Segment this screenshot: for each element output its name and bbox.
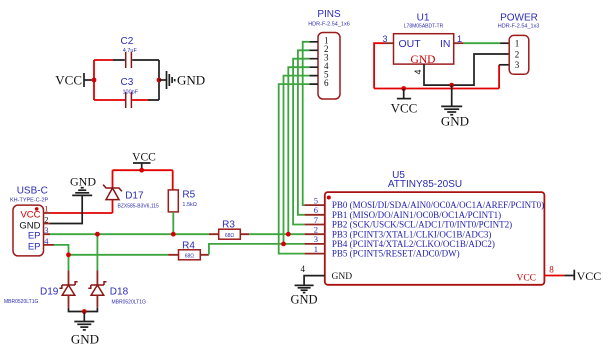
svg-text:5: 5 xyxy=(314,195,318,205)
svg-text:GND: GND xyxy=(290,292,317,306)
svg-text:68Ω: 68Ω xyxy=(225,233,235,239)
wire R5 to PB3 net xyxy=(172,212,174,234)
svg-text:EP: EP xyxy=(28,231,41,242)
svg-text:GND: GND xyxy=(332,272,353,282)
svg-text:6: 6 xyxy=(324,78,329,88)
svg-text:PINS: PINS xyxy=(317,9,341,20)
wire USB-C.3 net (PB3) to R3 xyxy=(50,233,209,235)
svg-text:8: 8 xyxy=(549,265,554,275)
junction D18 tap xyxy=(95,232,100,237)
regulator U1 L78M05ABDT-TR xyxy=(394,13,454,66)
svg-text:GND: GND xyxy=(70,174,96,188)
svg-text:PB4 (PCINT4/XTAL2/CLKO/OC1B/AD: PB4 (PCINT4/XTAL2/CLKO/OC1B/ADC2) xyxy=(332,239,495,249)
svg-text:L78M05ABDT-TR: L78M05ABDT-TR xyxy=(404,24,444,30)
svg-text:POWER: POWER xyxy=(500,13,538,24)
svg-text:OUT: OUT xyxy=(399,38,422,50)
svg-text:R3: R3 xyxy=(222,219,235,230)
junction D19/R4 xyxy=(66,252,71,257)
pin OUT stub xyxy=(384,42,394,44)
junction R5 tap xyxy=(171,232,176,237)
diode D17 zener BZX585-B3V6,115 xyxy=(103,185,159,210)
svg-text:VCC: VCC xyxy=(55,73,82,88)
capacitor C2 xyxy=(121,36,138,68)
svg-text:C3: C3 xyxy=(121,77,134,88)
node VCC flag right of U5 xyxy=(574,269,601,283)
wire POWER.1 stub xyxy=(500,42,509,44)
ground symbol below diodes xyxy=(71,312,99,347)
wire R4 to U5.3 xyxy=(209,244,305,255)
connector PINS (HDR-F-2.54_1x6) xyxy=(308,9,350,99)
node VCC flag below rail xyxy=(391,89,418,116)
svg-text:D19: D19 xyxy=(40,287,59,298)
svg-text:IN: IN xyxy=(440,38,451,50)
wire U1 GND net to POWER.2 xyxy=(424,54,509,85)
svg-text:1.5kΩ: 1.5kΩ xyxy=(182,202,197,208)
svg-text:GND: GND xyxy=(411,54,436,66)
svg-text:R5: R5 xyxy=(182,190,195,201)
svg-text:GND: GND xyxy=(177,73,205,88)
wire USB-C.4 to R4 row xyxy=(54,245,168,271)
wire PINS.2 to U5.6 xyxy=(298,50,309,215)
svg-text:C2: C2 xyxy=(121,36,134,47)
wire black top to C2 and right rail xyxy=(113,60,159,100)
svg-text:VCC: VCC xyxy=(20,210,40,221)
wire U5.4 to ground xyxy=(304,276,325,285)
svg-text:HDR-F-2.54_1x6: HDR-F-2.54_1x6 xyxy=(308,22,350,28)
svg-text:3: 3 xyxy=(515,60,520,70)
svg-text:USB-C: USB-C xyxy=(17,186,48,197)
svg-text:VCC: VCC xyxy=(132,152,156,164)
svg-text:D17: D17 xyxy=(125,191,144,202)
diode D18 MBR0520LT1G xyxy=(88,270,146,307)
svg-text:1: 1 xyxy=(314,244,318,254)
resistor R3 68R xyxy=(209,219,249,239)
svg-text:PB1 (MISO/DO/AIN1/OC0B/OC1A/PC: PB1 (MISO/DO/AIN1/OC0B/OC1A/PCINT1) xyxy=(332,210,501,220)
svg-text:4: 4 xyxy=(301,264,306,274)
svg-text:GND: GND xyxy=(441,114,469,129)
svg-text:GND: GND xyxy=(71,332,99,347)
ground symbol below U1 xyxy=(441,85,469,129)
svg-text:1: 1 xyxy=(515,39,520,49)
svg-text:VCC: VCC xyxy=(516,274,536,284)
wire U1 IN to POWER.1 (green) xyxy=(464,42,500,44)
wire U5.8 to VCC flag xyxy=(544,275,564,277)
svg-text:KH-TYPE-C-2P: KH-TYPE-C-2P xyxy=(10,198,49,204)
junction VCC tap on rail xyxy=(401,86,406,91)
node VCC flag above D17/R5 xyxy=(132,152,156,171)
svg-text:PB2 (SCK/USCK/SCL/ADC1/T0/INT0: PB2 (SCK/USCK/SCL/ADC1/T0/INT0/PCINT2) xyxy=(332,220,512,230)
ground symbol above USB-C.2 (inverted earth) xyxy=(70,174,96,195)
resistor R4 68R xyxy=(168,240,209,259)
node VCC flag left of C2/C3 xyxy=(55,73,91,88)
svg-text:6: 6 xyxy=(314,205,318,215)
wire PINS.4 down to PB3 net xyxy=(288,67,309,234)
resistor R5 1.5k xyxy=(168,190,197,212)
junction VCC flag tap xyxy=(139,168,144,173)
wire USB-C.1 to D17 xyxy=(50,170,113,213)
junction diode ground xyxy=(82,309,87,314)
wire diode bottoms to ground xyxy=(69,308,98,312)
svg-text:EP: EP xyxy=(28,241,41,252)
wire VCC rail D17-R5 xyxy=(113,170,173,190)
svg-text:R4: R4 xyxy=(182,240,195,251)
diode D19 MBR0520LT1G xyxy=(4,270,78,307)
wire PINS.1 to U5.5 xyxy=(303,42,310,205)
junction PINS.4 tap xyxy=(286,232,291,237)
junction PINS.5 tap xyxy=(281,242,286,247)
svg-text:4: 4 xyxy=(413,69,423,74)
junction C2/C3 right rail xyxy=(157,78,162,83)
IC U5 ATTINY85-20SU xyxy=(325,170,545,285)
svg-text:MBR0520LT1G: MBR0520LT1G xyxy=(4,299,38,305)
svg-text:BZX585-B3V6,115: BZX585-B3V6,115 xyxy=(118,204,160,210)
wire PINS.3 to U5.7 xyxy=(293,59,309,225)
wire R3 to U5.2 xyxy=(249,233,304,235)
junction on VCC rail xyxy=(92,78,97,83)
wire POWER.3 stub xyxy=(499,64,509,66)
junction U1 GND xyxy=(449,83,454,88)
pin stubs U5 left xyxy=(305,205,325,254)
svg-text:7: 7 xyxy=(314,215,318,225)
svg-text:PB3 (PCINT3/XTAL1/CLKI/OC1B/AD: PB3 (PCINT3/XTAL1/CLKI/OC1B/ADC3) xyxy=(332,229,492,239)
wire PINS.5 down to PB4 net xyxy=(284,76,310,244)
svg-text:VCC: VCC xyxy=(577,269,602,283)
svg-text:3: 3 xyxy=(314,234,318,244)
connector POWER (HDR-F-2.54_1x3) xyxy=(498,13,540,75)
svg-text:U1: U1 xyxy=(417,13,430,24)
wire D18 vertical xyxy=(96,234,98,270)
wire USB-C.2 to ground xyxy=(50,195,82,223)
svg-text:PB5 (PCINT5/RESET/ADC0/DW): PB5 (PCINT5/RESET/ADC0/DW) xyxy=(332,249,460,259)
pin IN stub xyxy=(454,42,464,44)
svg-text:HDR-F-2.54_1x3: HDR-F-2.54_1x3 xyxy=(498,24,540,30)
wire U1 OUT to VCC rail xyxy=(374,43,499,88)
pin stubs PINS 1-6 xyxy=(309,42,318,84)
connector USB-C (KH-TYPE-C-2P) xyxy=(10,186,49,256)
svg-text:VCC: VCC xyxy=(391,101,418,116)
svg-text:100pF: 100pF xyxy=(122,90,138,96)
svg-text:2: 2 xyxy=(314,225,318,235)
svg-text:MBR0520LT1G: MBR0520LT1G xyxy=(112,299,146,305)
svg-text:2: 2 xyxy=(515,49,520,59)
svg-text:4.7uF: 4.7uF xyxy=(123,48,138,54)
ground symbol below U5.4 xyxy=(290,285,317,306)
ground flag right of C2/C3 xyxy=(159,71,205,89)
wire red C3 right xyxy=(132,99,148,101)
wire PINS.6 to U5.1 xyxy=(279,84,310,254)
svg-text:ATTINY85-20SU: ATTINY85-20SU xyxy=(388,179,462,190)
svg-text:D18: D18 xyxy=(110,287,129,298)
wire VCC rail left of C2/C3 xyxy=(91,60,126,100)
svg-text:68Ω: 68Ω xyxy=(185,254,195,260)
capacitor C3 xyxy=(121,77,139,108)
pin stubs USB-C xyxy=(44,213,55,245)
svg-text:PB0 (MOSI/DI/SDA/AIN0/OC0A/OC1: PB0 (MOSI/DI/SDA/AIN0/OC0A/OC1A/AREF/PCI… xyxy=(332,200,544,210)
